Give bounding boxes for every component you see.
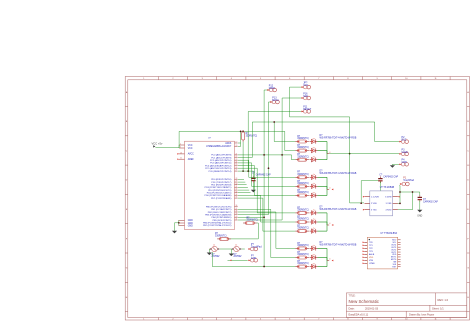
svg-text:WS-RF786-TD/T-4-NK/TD-W-RGB: WS-RF786-TD/T-4-NK/TD-W-RGB	[320, 136, 357, 139]
connector P3 VLED jumper	[399, 152, 408, 156]
svg-text:Drawn By: Ivan Popov: Drawn By: Ivan Popov	[409, 313, 435, 317]
svg-text:34: 34	[236, 194, 238, 196]
wire VLED rail	[329, 153, 399, 155]
resistor R? b	[215, 233, 231, 240]
svg-text:WS-RF786-TD/T-4-NK/TD-W-RGB: WS-RF786-TD/T-4-NK/TD-W-RGB	[320, 208, 357, 211]
svg-text:AREF: AREF	[188, 158, 195, 161]
svg-text:29: 29	[236, 181, 238, 183]
node VLED/VCC junction	[349, 153, 351, 155]
P11 RESET label	[303, 106, 312, 112]
svg-text:41: 41	[236, 219, 238, 221]
connector P11 RESET jumper	[301, 110, 310, 114]
svg-text:RESET: RESET	[303, 108, 312, 111]
svg-text:330R(NTC): 330R(NTC)	[215, 236, 227, 238]
wire VCC jumper net down to U2	[290, 87, 365, 203]
svg-text:2 VDD: 2 VDD	[371, 203, 377, 205]
wire Qa bottom rail	[211, 252, 213, 267]
svg-text:CAP0402 CAP: CAP0402 CAP	[383, 175, 398, 178]
svg-text:LPMB: LPMB	[369, 263, 375, 265]
node MISO/PB4	[263, 216, 265, 218]
svg-text:TP-2DB4B: TP-2DB4B	[383, 187, 394, 189]
ground symbol P4	[390, 165, 395, 168]
svg-text:Date:: Date:	[349, 307, 355, 311]
resistor R? 330R pullup (vertical)	[242, 130, 245, 142]
svg-text:TTP229-BSF: TTP229-BSF	[384, 233, 398, 235]
svg-text:PC4 (ADC4/SDA/PCINT12): PC4 (ADC4/SDA/PCINT12)	[205, 164, 232, 167]
svg-text:PC6 (RESET/PCINT14): PC6 (RESET/PCINT14)	[209, 171, 232, 173]
capacitor C? output	[418, 195, 422, 210]
svg-text:PB6 (PCINT6/XTAL1/TOSC1): PB6 (PCINT6/XTAL1/TOSC1)	[203, 221, 232, 224]
RGB LED group D4	[295, 242, 356, 269]
P16 SCK label	[303, 92, 308, 98]
svg-text:330R(NTC): 330R(NTC)	[297, 174, 309, 176]
transistor Q? a 2N7002	[209, 245, 220, 259]
wire VCC flag to U1 VCC pins	[155, 145, 179, 148]
node U1 GND join	[178, 222, 180, 224]
svg-text:MOSI: MOSI	[272, 99, 278, 102]
svg-text:330R(NTC): 330R(NTC)	[297, 156, 309, 158]
svg-text:6 5VIN: 6 5VIN	[385, 197, 392, 199]
svg-text:1 4.2V/B: 1 4.2V/B	[371, 197, 379, 199]
node P1 net joins	[399, 191, 413, 204]
IC U3 TTP229-BSF	[363, 233, 401, 269]
svg-text:35: 35	[236, 197, 238, 199]
svg-text:CAP0402 CAP: CAP0402 CAP	[256, 174, 271, 177]
C? output label	[423, 199, 438, 203]
connector P2 BUZ jumper	[399, 140, 408, 144]
node RESET/cap junction	[247, 170, 249, 172]
svg-text:Sheet: 1/1: Sheet: 1/1	[432, 307, 444, 311]
frame zone labels	[126, 78, 470, 321]
svg-text:19: 19	[236, 142, 238, 144]
svg-text:ATMEGA88PA-AU/ADC7: ATMEGA88PA-AU/ADC7	[206, 145, 232, 148]
svg-text:PB4 (PCINT4/MISO): PB4 (PCINT4/MISO)	[212, 217, 232, 219]
svg-text:39: 39	[236, 213, 238, 215]
svg-text:PC1 (ADC1/PCINT9): PC1 (ADC1/PCINT9)	[211, 156, 231, 159]
svg-text:330R(NTC): 330R(NTC)	[297, 210, 309, 212]
svg-text:WS-RF786-TD/T-4-NK/TD-W-RGB: WS-RF786-TD/T-4-NK/TD-W-RGB	[320, 243, 357, 246]
svg-text:PB0 (PCINT0/CLKO/ICP1): PB0 (PCINT0/CLKO/ICP1)	[206, 206, 232, 208]
svg-text:4 RXD: 4 RXD	[386, 210, 392, 212]
svg-text:20: 20	[180, 158, 182, 160]
svg-text:CAP0402 CAP: CAP0402 CAP	[423, 200, 438, 203]
svg-text:PD7 (PCINT23/AIN1): PD7 (PCINT23/AIN1)	[211, 197, 232, 200]
wire g4r3 bottom feed	[212, 266, 295, 268]
RGB LED group D3	[295, 206, 356, 233]
svg-text:40: 40	[236, 216, 238, 218]
IC U2 TP-2DB4B	[363, 187, 400, 216]
wire MOSI jumper net	[238, 102, 272, 215]
IC U1 ATMEGA88PA-AU	[177, 131, 240, 229]
svg-text:SCK: SCK	[303, 95, 308, 98]
svg-text:REV: 1.0: REV: 1.0	[438, 298, 449, 302]
resistor R? a	[243, 217, 258, 224]
node g1r1 tap	[273, 121, 275, 123]
node g4r3	[263, 266, 265, 268]
svg-text:330R(NTC): 330R(NTC)	[297, 263, 309, 265]
svg-text:3 TXD: 3 TXD	[371, 210, 377, 212]
svg-text:32: 32	[236, 189, 238, 191]
wire Qa to Qb	[220, 248, 232, 250]
ground symbol below C?	[251, 190, 256, 193]
RGB LED group D1	[295, 135, 356, 162]
svg-text:PD3 (PCINT19/OC2B/INT1): PD3 (PCINT19/OC2B/INT1)	[205, 187, 232, 189]
svg-text:PC3 (ADC3/PCINT11): PC3 (ADC3/PCINT11)	[210, 162, 231, 165]
svg-text:4: 4	[329, 223, 330, 225]
connector JP? VCC jumper	[301, 85, 310, 89]
svg-text:330R(NTC): 330R(NTC)	[297, 245, 309, 247]
svg-text:330R(NTC): 330R(NTC)	[297, 219, 309, 221]
svg-text:37: 37	[236, 208, 238, 210]
svg-text:PB3 (PCINT3/OC2A/MOSI): PB3 (PCINT3/OC2A/MOSI)	[205, 213, 231, 216]
wire staircase PC pins to LED rows	[238, 155, 295, 258]
svg-text:330R(NTC): 330R(NTC)	[246, 136, 258, 138]
svg-text:26: 26	[236, 167, 238, 169]
JP? VCC label	[303, 81, 308, 87]
connector P? GND (bottom)	[248, 259, 257, 263]
svg-text:330R(NTC): 330R(NTC)	[297, 183, 309, 185]
svg-text:PD2 (INT0/PCINT18): PD2 (INT0/PCINT18)	[211, 185, 232, 187]
svg-text:25: 25	[236, 164, 238, 166]
node PC0 crossings	[263, 154, 283, 169]
ground symbol below U1	[172, 231, 177, 234]
wire pullup to RESET row	[242, 142, 244, 171]
title block	[346, 293, 466, 318]
wire VCC rail to pullup resistor (y=131.4)	[179, 131, 285, 147]
svg-text:PD6 (PCINT22/OC0A/AIN0): PD6 (PCINT22/OC0A/AIN0)	[205, 194, 232, 197]
C? label near U2	[379, 175, 398, 179]
ground symbol C? output	[417, 210, 422, 218]
svg-text:330R(NTC): 330R(NTC)	[297, 138, 309, 140]
svg-text:TITLE:: TITLE:	[349, 296, 356, 298]
svg-text:MISO: MISO	[269, 87, 275, 90]
svg-text:24: 24	[236, 162, 238, 164]
wire MISO jumper net (long vertical)	[238, 90, 269, 267]
svg-text:36: 36	[236, 205, 238, 207]
ground symbol Qb	[229, 249, 234, 256]
svg-text:330R(NTC): 330R(NTC)	[297, 192, 309, 194]
node VCC/pullup junction	[242, 131, 244, 133]
wire Qb to TouchPad jumper	[242, 248, 245, 250]
connector P12 MISO jumper	[267, 88, 276, 92]
svg-text:18: 18	[180, 152, 182, 154]
title block text	[349, 296, 449, 317]
svg-text:VSS: VSS	[369, 260, 374, 262]
svg-text:33: 33	[236, 191, 238, 193]
wire g1r2 feed from VCC rail131	[285, 131, 296, 150]
svg-text:22: 22	[236, 156, 238, 158]
svg-text:GND: GND	[402, 161, 408, 164]
P? GND bottom label	[251, 254, 257, 260]
svg-text:GND: GND	[188, 225, 193, 227]
svg-text:330R(NTC): 330R(NTC)	[297, 147, 309, 149]
svg-text:4: 4	[329, 188, 330, 190]
svg-text:PC0 (ADC0/PCINT8): PC0 (ADC0/PCINT8)	[211, 154, 231, 157]
P1 TouchPad label	[403, 176, 414, 182]
resistor R? labels	[246, 133, 258, 138]
P12 MISO label	[269, 84, 275, 90]
svg-text:330R(NTC): 330R(NTC)	[297, 228, 309, 230]
svg-text:30: 30	[236, 183, 238, 185]
ground symbol Qa	[207, 249, 212, 255]
transistor Q? b 2N7002	[231, 245, 242, 259]
svg-text:AVCC: AVCC	[188, 153, 194, 156]
wire U1 GND pins to ground	[175, 220, 179, 231]
connector P4 GND jumper	[399, 163, 408, 167]
svg-text:PC5 (ADC5/SCL/PCINT13): PC5 (ADC5/SCL/PCINT13)	[205, 167, 231, 170]
svg-text:31: 31	[236, 186, 238, 188]
svg-text:PB1 (OC1A/PCINT1): PB1 (OC1A/PCINT1)	[211, 208, 231, 211]
P? TouchPad bottom label	[251, 243, 262, 249]
svg-text:330R(NTC): 330R(NTC)	[247, 220, 259, 222]
svg-text:EasyEDA v5.0.11: EasyEDA v5.0.11	[349, 313, 369, 317]
P4 GND label	[402, 159, 408, 165]
P13 MOSI label	[272, 96, 278, 102]
P2 BUZ label	[402, 136, 407, 142]
svg-text:2019-01-03: 2019-01-03	[365, 307, 379, 311]
wire into GND jumper	[228, 259, 248, 261]
node ADC power tap	[240, 131, 242, 133]
wire g1r1 feed from y122	[274, 122, 295, 142]
connector P16 SCK jumper	[301, 96, 310, 100]
node U2 VDD junction	[360, 202, 362, 204]
wire SCK jumper net	[238, 98, 301, 220]
svg-text:AHLB: AHLB	[369, 253, 375, 256]
svg-text:38: 38	[236, 211, 238, 213]
connector P13 MOSI jumper	[270, 100, 279, 104]
svg-text:TouchPad: TouchPad	[251, 246, 262, 249]
svg-text:PC2 (ADC2/PCINT10): PC2 (ADC2/PCINT10)	[210, 159, 232, 162]
svg-text:VCC: VCC	[303, 84, 308, 87]
svg-text:27: 27	[236, 170, 238, 172]
svg-text:VCC +5v: VCC +5v	[152, 142, 163, 146]
VCC net flag +5v	[152, 142, 163, 148]
svg-text:VCC: VCC	[188, 148, 193, 150]
svg-text:1 2: 1 2	[235, 245, 237, 247]
svg-text:PD0 (RXD/PCINT16): PD0 (RXD/PCINT16)	[211, 179, 231, 181]
svg-text:2N7002: 2N7002	[233, 256, 243, 258]
svg-text:GND: GND	[188, 220, 193, 222]
svg-text:2N7002: 2N7002	[211, 256, 221, 258]
svg-text:20: 20	[236, 145, 238, 147]
capacitor C? near U2	[361, 176, 382, 203]
svg-text:GND: GND	[251, 257, 257, 260]
svg-text:ADC6: ADC6	[225, 142, 232, 145]
RGB LED group D2	[295, 171, 356, 198]
svg-text:VCC: VCC	[188, 145, 193, 147]
wire P4 to ground	[392, 163, 399, 166]
svg-text:5 VSS: 5 VSS	[386, 203, 392, 205]
sheet border frame	[125, 77, 469, 321]
svg-text:VDD: VDD	[369, 257, 374, 259]
connector P? TouchPad (bottom)	[248, 247, 257, 251]
svg-text:330R(NTC): 330R(NTC)	[297, 254, 309, 256]
svg-text:BUZ: BUZ	[402, 139, 407, 142]
wire RESET net U1 to jumper	[238, 112, 301, 172]
svg-text:PD5 (PCINT21/OC0B/T1): PD5 (PCINT21/OC0B/T1)	[207, 193, 232, 195]
connector P1 TouchPad jumper	[400, 182, 409, 186]
wire PC1/BUZ row (y=122)	[238, 122, 399, 158]
P3 VLED label	[402, 148, 409, 154]
svg-text:WS-RF786-TD/T-4-NK/TD-W-RGB: WS-RF786-TD/T-4-NK/TD-W-RGB	[320, 172, 357, 175]
svg-text:4: 4	[329, 259, 330, 261]
wire PD0-PD5 stubs	[238, 179, 251, 192]
svg-text:GND: GND	[417, 215, 422, 217]
capacitor C? labels	[252, 173, 271, 177]
wire Ra to Rb	[228, 223, 258, 239]
svg-text:21: 21	[236, 154, 238, 156]
svg-text:28: 28	[236, 178, 238, 180]
node RESET junction	[242, 170, 244, 172]
wire P1 to U2 right	[398, 186, 420, 210]
svg-text:VLED: VLED	[402, 151, 409, 154]
svg-text:TouchPad: TouchPad	[403, 179, 414, 182]
svg-text:23: 23	[236, 159, 238, 161]
svg-text:1 2: 1 2	[213, 245, 215, 247]
capacitor C? on reset net	[251, 171, 255, 190]
svg-text:New Schematic: New Schematic	[349, 299, 380, 304]
svg-text:PB7 (PCINT7/XTAL2/TOSC2): PB7 (PCINT7/XTAL2/TOSC2)	[203, 224, 232, 227]
